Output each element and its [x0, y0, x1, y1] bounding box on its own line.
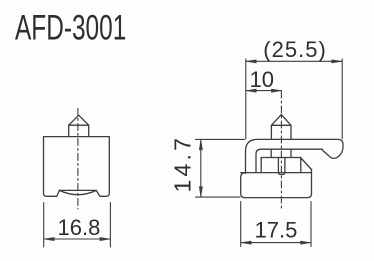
16.8 extension line right: [109, 203, 111, 248]
17.5 arrow left: [241, 241, 251, 244]
side knob (pentagon): [271, 115, 291, 140]
side mid block right: [300, 158, 302, 173]
(25.5) arrow left: [246, 60, 256, 63]
side stem slot: [278, 158, 285, 175]
side stem collar left: [270, 149, 272, 157]
14.7 extension line bottom: [196, 196, 241, 198]
(25.5) extension line left: [245, 59, 247, 139]
svg-text:14.7: 14.7: [170, 135, 196, 193]
svg-text:(25.5): (25.5): [263, 37, 326, 62]
side chamfer: [301, 158, 312, 170]
14.7 extension line top: [196, 138, 245, 140]
(25.5) arrow right: [332, 60, 342, 63]
side mid block top: [261, 157, 300, 159]
side arm (hook) outline: [246, 139, 344, 173]
front bottom recess arc (lens): [59, 190, 96, 194]
16.8 arrow right: [100, 237, 110, 240]
10 arrow left: [246, 89, 256, 92]
(25.5) dimension line: [246, 60, 341, 62]
side base body: [241, 170, 312, 198]
14.7 dimension line: [200, 140, 202, 197]
side knob base line: [271, 124, 291, 126]
svg-text:16.8: 16.8: [58, 215, 101, 240]
14.7 arrow bottom: [199, 187, 202, 197]
side stem collar right: [290, 149, 292, 157]
(25.5) extension line right: [341, 59, 343, 139]
svg-text:17.5: 17.5: [255, 218, 298, 243]
front knob (pentagon): [69, 115, 89, 136]
16.8 extension line left: [43, 203, 45, 248]
svg-text:AFD-3001: AFD-3001: [15, 9, 126, 47]
16.8 dimension line: [44, 238, 110, 240]
17.5 arrow right: [301, 241, 311, 244]
17.5 extension line left: [240, 202, 242, 247]
front centerline (dashed): [77, 108, 79, 209]
14.7 arrow top: [199, 140, 202, 150]
front knob base line: [69, 124, 89, 126]
front body outline with feet and bottom recess: [44, 137, 110, 197]
17.5 dimension line: [241, 242, 310, 244]
svg-text:10: 10: [250, 67, 274, 92]
17.5 extension line right: [310, 202, 312, 247]
10 dimension line: [246, 90, 281, 92]
10 arrow right: [271, 89, 281, 92]
16.8 arrow left: [44, 237, 54, 240]
side mid block left: [260, 158, 262, 173]
side centerline (dashed): [280, 91, 282, 209]
